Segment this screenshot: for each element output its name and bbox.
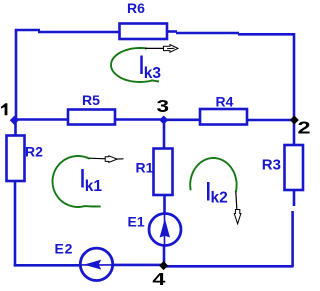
node 4: [159, 261, 168, 270]
wire: node 2 down to R3: [293, 120, 296, 146]
source E1: [149, 214, 181, 246]
loop Ik3 green arc: [111, 48, 159, 82]
loop Ik3 arrow: [145, 47, 166, 49]
loop Ik2 green arc: [190, 158, 236, 192]
svg-text:R2: R2: [25, 144, 43, 160]
source E2: [80, 248, 112, 280]
wire: node 3 down to R1: [163, 120, 166, 149]
svg-text:E1: E1: [128, 214, 145, 230]
wire: bottom horizontal from corner through node 4 to E2: [163, 265, 294, 268]
svg-text:R3: R3: [262, 157, 281, 174]
resistor R2: [7, 136, 25, 182]
svg-text:3: 3: [157, 97, 170, 116]
wire: R6 to top-right corner (with jogs): [166, 30, 177, 33]
wire: E1 down to node 4: [163, 245, 166, 267]
wire: left vertical below R2 to bottom-left corner: [14, 181, 17, 266]
node 2: [290, 115, 299, 124]
svg-text:R6: R6: [127, 0, 145, 16]
resistor R3: [285, 145, 304, 190]
svg-text:Ik2: Ik2: [205, 176, 228, 206]
svg-text:2: 2: [298, 118, 311, 138]
svg-text:Ik1: Ik1: [79, 163, 103, 195]
svg-text:4: 4: [152, 269, 165, 289]
wire: node 3 to R4: [164, 119, 200, 122]
wire: R3 bottom short stub: [293, 190, 296, 206]
node 1: [10, 116, 19, 125]
wire: lower right vertical to bottom corner: [291, 211, 294, 266]
wire: R5 to node 3: [115, 118, 164, 121]
loop Ik2 arrow: [236, 192, 237, 213]
wire: right vertical from top corner to node 2: [293, 33, 296, 120]
resistor R1: [154, 149, 173, 196]
resistor R4: [200, 109, 247, 125]
wire: top-left horizontal to R6 (with jog): [15, 29, 40, 32]
node label 1: [1, 103, 7, 115]
svg-text:R4: R4: [216, 94, 234, 110]
svg-text:R1: R1: [136, 160, 154, 176]
resistor R5: [68, 110, 115, 125]
svg-text:R5: R5: [82, 92, 100, 108]
svg-text:Ik3: Ik3: [138, 50, 162, 82]
wire: R4 to node 2: [247, 119, 294, 122]
wire: node 1 to R5: [14, 118, 68, 121]
loop Ik1 arrow: [89, 157, 106, 160]
wire: node 1 down to R2: [14, 120, 17, 136]
wire: bottom horizontal E2 to bottom-left corner: [14, 264, 81, 267]
wire: left vertical from top-left corner to node 1: [15, 29, 18, 120]
node 3: [159, 115, 168, 124]
resistor R6: [120, 24, 168, 40]
loop Ik1 green arc: [53, 156, 101, 207]
svg-text:E2: E2: [55, 241, 74, 257]
wire: R1 down to E1: [163, 195, 166, 215]
